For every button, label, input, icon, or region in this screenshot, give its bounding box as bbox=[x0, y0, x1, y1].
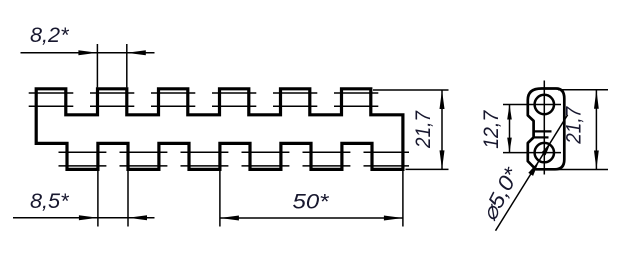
svg-text:21,7: 21,7 bbox=[411, 110, 435, 149]
top hole circle bbox=[535, 95, 554, 114]
top tooth 5 lines bbox=[273, 92, 317, 94]
top tooth 2 lines bbox=[90, 92, 134, 94]
center marks bbox=[503, 81, 561, 175]
arrow 8,2 right bbox=[127, 50, 146, 55]
arrow 21,7 main top bbox=[440, 90, 445, 109]
svg-text:8,2*: 8,2* bbox=[30, 23, 69, 47]
thin hole lines across top teeth bbox=[29, 93, 409, 166]
arrow 12,7 bottom bbox=[507, 138, 512, 153]
bottom tooth 3 lines bbox=[181, 151, 229, 153]
side view outline bbox=[528, 89, 565, 170]
arrow 12,7 top bbox=[507, 105, 512, 120]
main comb profile outline bbox=[36, 89, 403, 170]
dim 21,7 main extension lines bbox=[373, 90, 449, 169]
top tooth 3 lines bbox=[151, 92, 195, 94]
arrow 21,7 side bottom bbox=[594, 151, 599, 170]
dim 21,7 side extension lines bbox=[557, 90, 608, 170]
svg-text:⌀5,0*: ⌀5,0* bbox=[477, 163, 524, 224]
arrow 50 left bbox=[220, 216, 239, 221]
side view lower lobe joint line bbox=[534, 136, 549, 138]
dim 50 line bbox=[220, 217, 403, 219]
arrow 8,2 left bbox=[78, 50, 97, 55]
arrow 21,7 main bottom bbox=[440, 150, 445, 169]
arrow 8,5 right bbox=[128, 215, 147, 220]
bottom tooth 5 lines bbox=[303, 151, 351, 153]
leader arrow lower bbox=[528, 161, 539, 176]
top tooth 4 lines bbox=[212, 92, 256, 94]
dim 8,5 extension lines bbox=[98, 144, 128, 227]
dim 50 extension lines bbox=[220, 171, 403, 227]
top tooth 6 lines bbox=[334, 92, 378, 94]
top tooth 1 lines bbox=[29, 92, 74, 94]
arrow 50 right bbox=[384, 216, 403, 221]
dim 12,7 line bbox=[509, 105, 511, 153]
dim 8,5 line bbox=[13, 217, 155, 219]
svg-text:21,7: 21,7 bbox=[562, 106, 586, 145]
leader arrow upper bbox=[541, 142, 551, 155]
bottom tooth 2 lines bbox=[120, 151, 168, 153]
svg-text:12,7: 12,7 bbox=[479, 110, 503, 149]
arrow 8,5 left bbox=[79, 215, 98, 220]
bottom tooth 6 lines bbox=[364, 151, 410, 153]
arrow 21,7 side top bbox=[594, 90, 599, 109]
side view upper lobe joint line bbox=[534, 130, 552, 132]
dim 21,7 side line bbox=[595, 90, 597, 170]
dim 8,2 line bbox=[21, 52, 155, 54]
bottom tooth 1 lines bbox=[59, 151, 107, 153]
bottom tooth 4 lines bbox=[242, 151, 290, 153]
dim 21,7 main line bbox=[441, 90, 443, 169]
svg-text:50*: 50* bbox=[293, 190, 330, 214]
dim 8,2 extension lines bbox=[97, 44, 126, 87]
bottom hole circle bbox=[535, 143, 554, 162]
svg-text:8,5*: 8,5* bbox=[30, 189, 69, 213]
leader line for hole diameter 5,0 bbox=[496, 115, 568, 231]
